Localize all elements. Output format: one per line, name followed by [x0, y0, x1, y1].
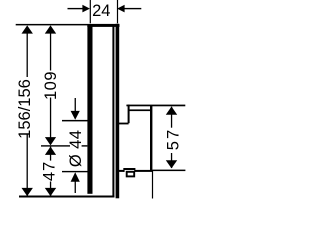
wire: valve body bottom left segment	[119, 170, 124, 172]
wire: dim 57 line upper	[171, 107, 172, 128]
arrowhead: 57 down	[166, 160, 177, 168]
arrowhead: 44 down	[71, 111, 80, 120]
wire: dim 24 left arrow tail	[68, 8, 84, 9]
wire: dim 44 top extension line	[62, 120, 88, 122]
wire: plate top edge	[87, 25, 119, 27]
wire: plate back inner line	[112, 26, 114, 197]
arrowhead: 156/156 top	[22, 25, 33, 33]
wire: dim 156/156 line upper	[27, 27, 28, 78]
wire: bump right step	[134, 168, 135, 172]
wire: dim 44 line lower	[75, 181, 76, 193]
arrowhead: 109 top	[45, 25, 56, 33]
wire: dim 47 line upper	[50, 147, 51, 161]
arrowhead: dim 24 left	[82, 5, 90, 13]
wire: handle centre extension line left	[41, 145, 70, 146]
arrowhead: 156/156 bottom	[22, 188, 33, 196]
svg-text:47: 47	[41, 161, 59, 181]
arrowhead: 44 up	[71, 172, 80, 182]
arrowhead: 47 up at centre line	[45, 147, 56, 155]
arrowhead: 109 bottom at centre line	[45, 137, 56, 145]
wire: thin line below valve body	[152, 170, 153, 199]
wire: bottom extension line	[19, 196, 114, 198]
wire: dim 109 line upper	[50, 27, 51, 71]
arrowhead: 57 up	[166, 107, 177, 115]
wire: dim 44 bottom extension line	[62, 171, 88, 172]
wire: dim 44 line upper	[75, 98, 76, 112]
wire: valve cap top line and 57 top extension	[126, 105, 185, 107]
svg-text:57: 57	[164, 128, 182, 150]
component: bottom stub	[127, 172, 135, 177]
wire: handle centre extension line right stub	[82, 145, 88, 146]
wire: dim 24 right extension line	[117, 0, 118, 23]
wire: wall line	[116, 24, 120, 199]
wire: valve body bottom bump	[123, 168, 135, 170]
svg-text:109: 109	[42, 71, 60, 100]
wire: dim 47 line lower	[50, 182, 51, 196]
wire: neck bottom line	[119, 123, 129, 125]
wire: top extension line	[16, 24, 120, 26]
svg-text:156/156: 156/156	[16, 79, 34, 139]
wire: dim 24 right arrow tail	[124, 8, 141, 9]
wire: plate front thick bar	[87, 26, 92, 194]
wire: valve body right edge	[150, 106, 152, 171]
wire: valve body bottom right segment	[135, 170, 153, 172]
svg-text:Ø 44: Ø 44	[67, 130, 85, 167]
wire: bump left step	[123, 168, 124, 172]
wire: dim 57 line lower	[171, 153, 172, 168]
svg-text:24: 24	[92, 2, 110, 20]
wire: 57 bottom extension line	[152, 170, 185, 172]
wire: dim 109 line middle	[50, 98, 51, 138]
wire: valve cap left edge	[128, 105, 130, 124]
arrowhead: dim 24 right	[117, 5, 125, 13]
wire: dim 24 left extension line	[90, 0, 91, 23]
wire: dim 156/156 line lower	[27, 135, 28, 196]
arrowhead: 47 bottom	[45, 188, 56, 196]
wire: valve cap bottom seam	[129, 109, 151, 111]
